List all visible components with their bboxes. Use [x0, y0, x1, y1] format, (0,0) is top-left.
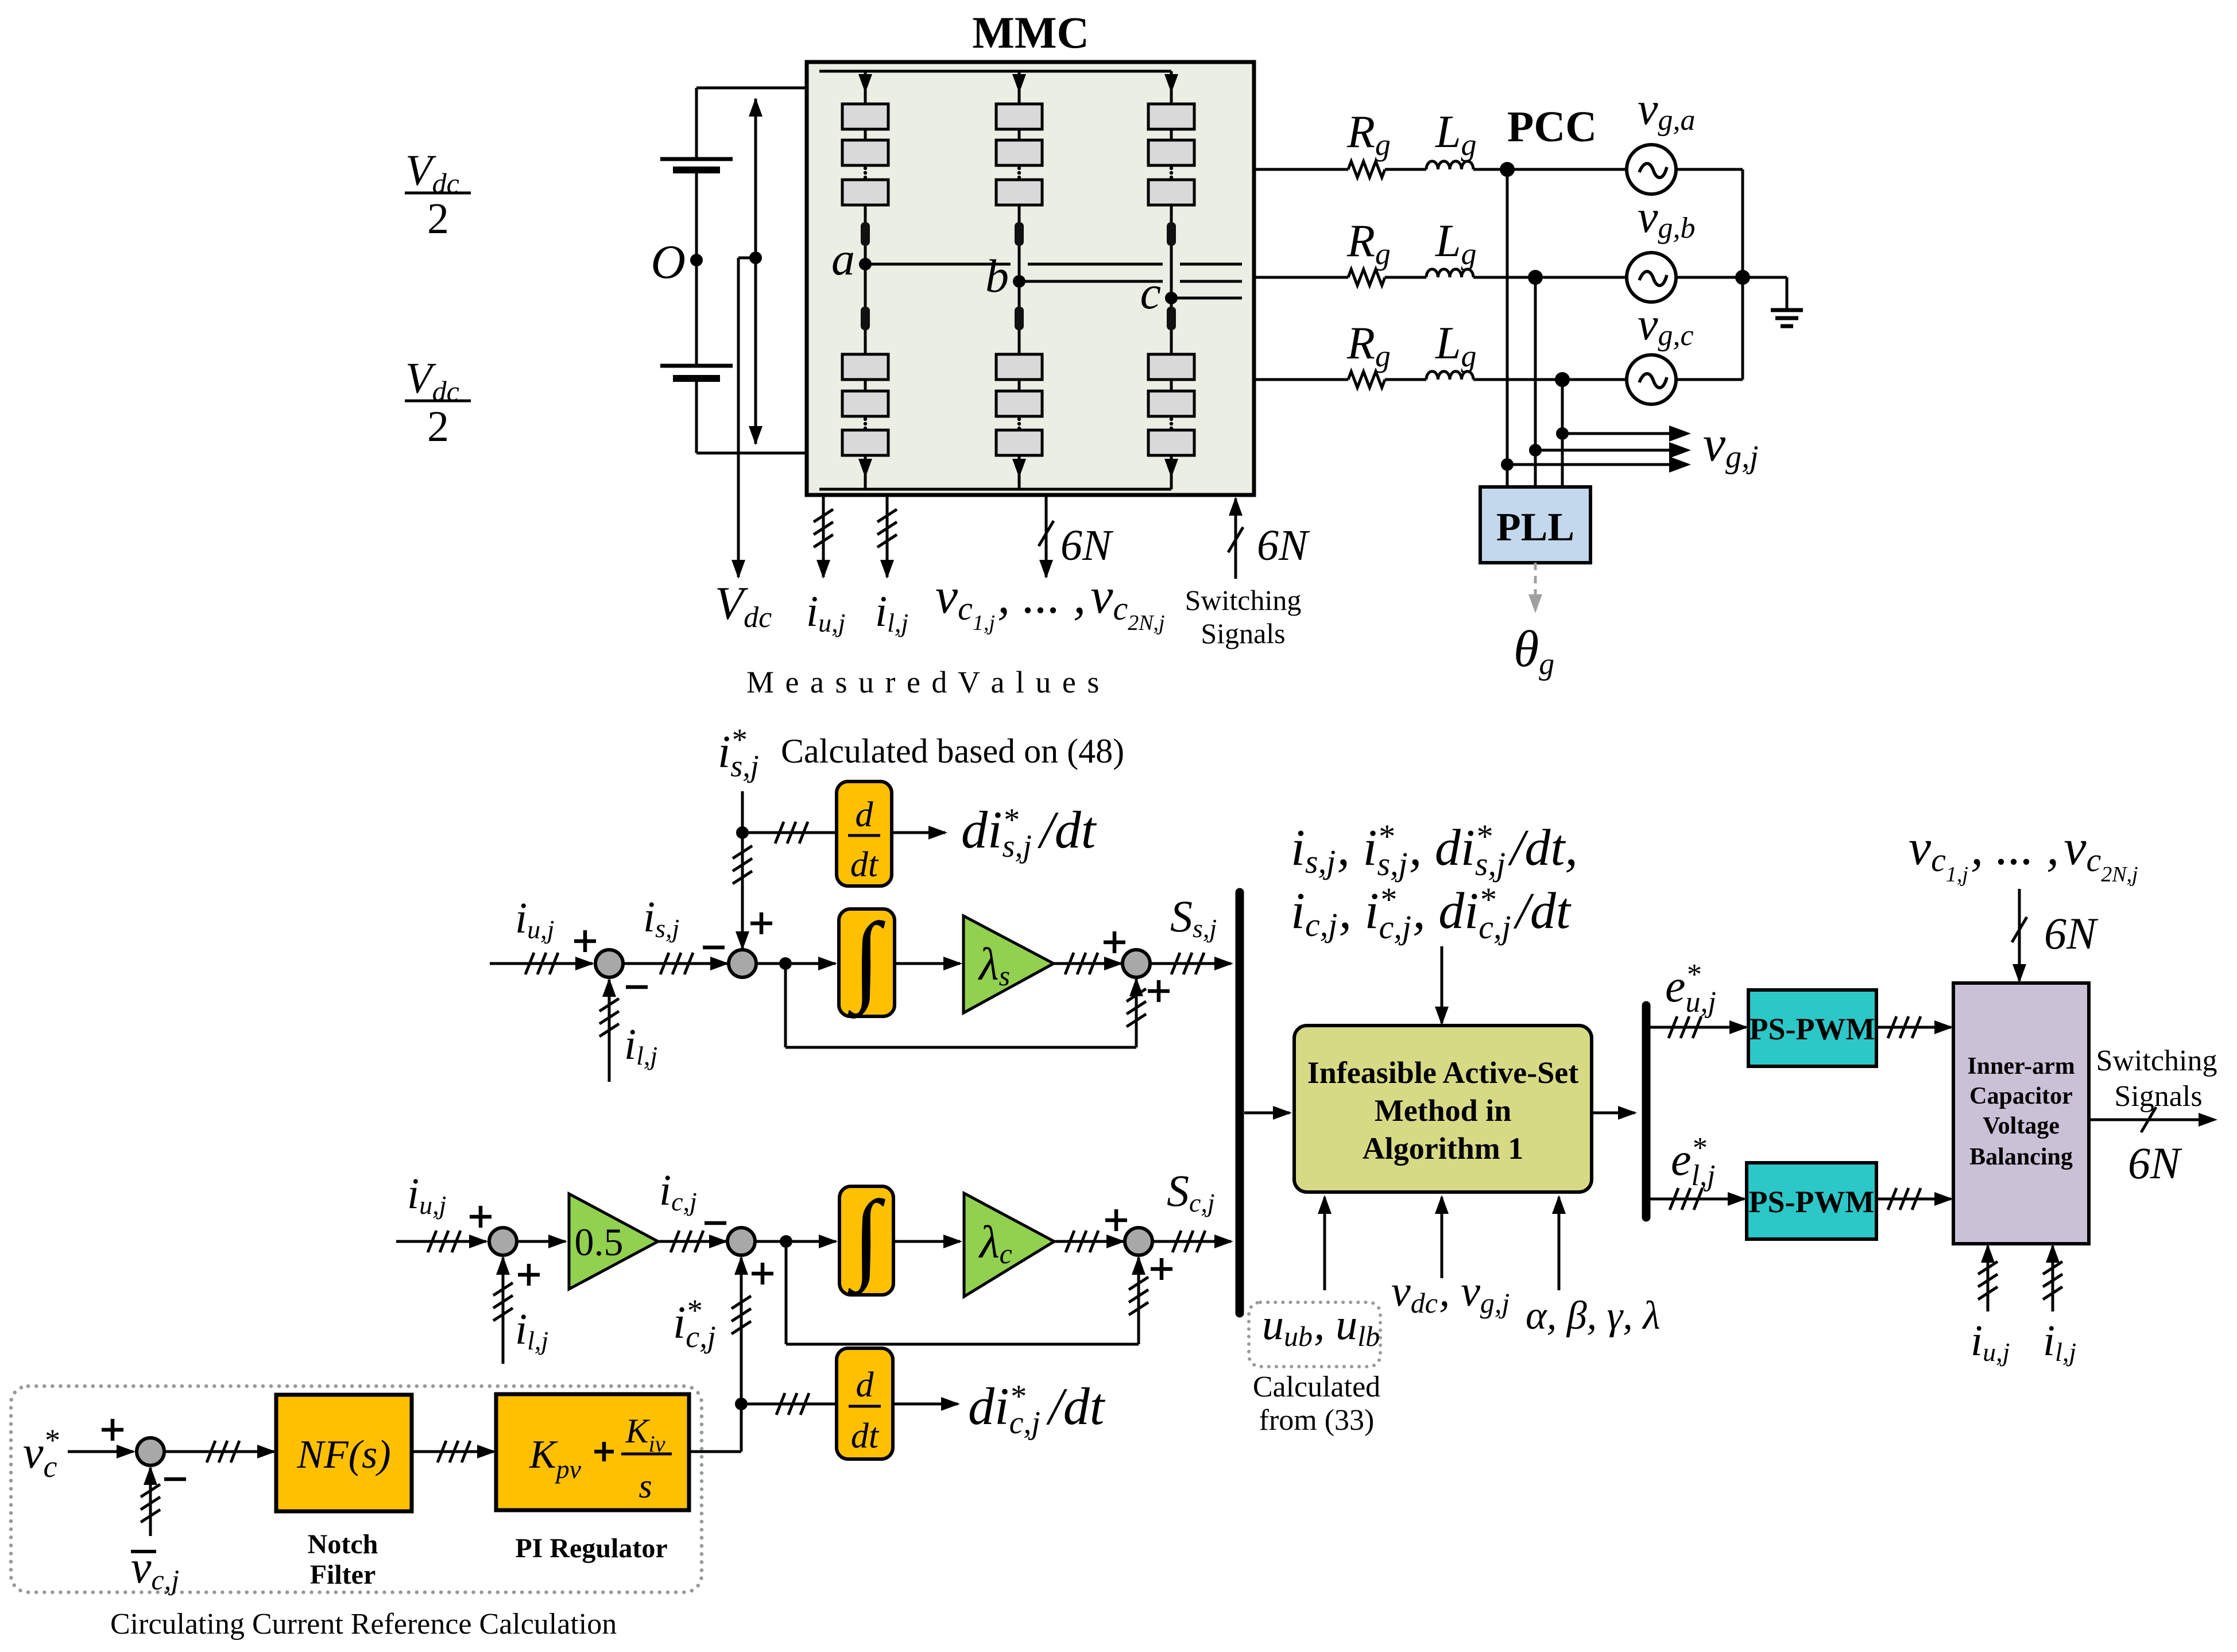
label vbar_c,j [131, 1542, 179, 1596]
bus bar signals row1/row2 [1236, 892, 1244, 1313]
bus bar e outputs [1642, 1005, 1651, 1217]
summing junction row1 A [574, 930, 648, 987]
svg-text:dt: dt [851, 1417, 880, 1456]
gain 0.5 [569, 1194, 658, 1289]
svg-text:from (33): from (33) [1259, 1404, 1375, 1437]
label S_s,j [1170, 891, 1217, 943]
wire node a to lower inductor [864, 264, 867, 307]
label circulating current reference calculation [110, 1608, 617, 1641]
inner-arm capacitor voltage balancing block [1953, 983, 2089, 1244]
inductor Lg phase c [1426, 372, 1473, 380]
svg-text:PI Regulator: PI Regulator [515, 1533, 667, 1564]
wire v*_c input [68, 1445, 136, 1458]
wire vbar_c,j input [141, 1466, 160, 1536]
svg-text:2: 2 [427, 403, 449, 451]
label measured values [746, 665, 1101, 699]
node phase c tap [1555, 372, 1570, 387]
label switching signals output [2096, 1044, 2217, 1188]
label theta_g [1514, 621, 1554, 681]
label i_u,j measured [806, 587, 845, 637]
wire node b to lower inductor [1018, 281, 1021, 307]
PS-PWM block upper [1748, 990, 1876, 1066]
wire MMC to grid phase a [1254, 168, 1348, 171]
wire tap phase b to PLL [1534, 277, 1537, 487]
MMC title [972, 7, 1089, 57]
label v_dc v_g,j [1391, 1267, 1510, 1319]
label e*_l,j [1671, 1132, 1715, 1192]
wire junction B to integrator row2 [754, 1235, 838, 1248]
svg-text:Switching: Switching [1185, 584, 1302, 616]
label i_l,j row2 [515, 1305, 548, 1355]
summing junction row1 B [703, 912, 772, 977]
wire source to neutral bus phase b [1676, 276, 1743, 279]
svg-text:Signals: Signals [1201, 617, 1285, 649]
wire measured i_l,j [877, 495, 897, 579]
wire inductor to node b [1018, 246, 1021, 281]
wire S_s,j to bus [1150, 953, 1233, 974]
wire PS-PWM lower to inner-arm [1876, 1188, 1953, 1210]
wire Rg to Lg phase a [1385, 168, 1426, 171]
battery Vdc/2 lower [660, 260, 733, 453]
dashed box circulating current reference calculation [11, 1386, 702, 1592]
wire e*_l,j to PS-PWM lower [1650, 1188, 1747, 1210]
MMC phase leg c upper arm [1148, 71, 1194, 222]
label v_c1,j ... v_c2N,j top [1909, 820, 2138, 887]
wire i_u,j into inner-arm [1978, 1244, 1998, 1311]
label i_s,j [643, 893, 679, 943]
svg-text:Signals: Signals [2114, 1080, 2202, 1113]
wire e*_u,j to PS-PWM upper [1650, 1016, 1748, 1038]
wire NF to PI [412, 1441, 496, 1463]
label Lg phase b [1435, 216, 1477, 271]
svg-text:Notch: Notch [308, 1529, 378, 1560]
svg-text:∫: ∫ [847, 902, 885, 1019]
resistor Rg phase b [1348, 269, 1385, 285]
label alpha beta gamma lambda [1526, 1294, 1661, 1338]
infeasible active-set method block [1294, 1026, 1592, 1192]
wire node c to lower inductor [1170, 298, 1173, 307]
label v_g,b [1638, 192, 1696, 245]
d/dt block row2 [837, 1348, 893, 1459]
svg-text:∫: ∫ [847, 1180, 885, 1297]
svg-text:Algorithm 1: Algorithm 1 [1363, 1131, 1523, 1166]
svg-text:Switching: Switching [2096, 1044, 2217, 1077]
svg-text:6N: 6N [1061, 521, 1114, 570]
svg-text:a: a [831, 233, 855, 285]
Vdc measurement arrow [749, 98, 763, 445]
PS-PWM block lower [1747, 1163, 1876, 1239]
svg-text:Voltage: Voltage [1983, 1113, 2060, 1139]
label v_g,a [1638, 84, 1696, 137]
label v_g,j [1703, 416, 1759, 475]
wire feedback row2 [786, 1241, 1148, 1344]
label e*_u,j [1665, 958, 1716, 1019]
AC source v_g,b [1627, 253, 1676, 302]
wire gain to junction C row2 [1054, 1231, 1125, 1252]
arm inductor upper leg b [1015, 222, 1024, 246]
wire Rg to Lg phase c [1385, 378, 1426, 381]
wire u_ub u_lb input [1318, 1195, 1332, 1290]
wire labels to infeasible block [1435, 946, 1449, 1026]
wire phase b output [1019, 280, 1242, 283]
wire gain to junction B row2 [658, 1231, 728, 1252]
svg-text:Capacitor: Capacitor [1969, 1083, 2073, 1109]
svg-text:d: d [856, 795, 874, 834]
label switching signals (MMC) [1185, 584, 1302, 649]
label i*_c,j [673, 1293, 716, 1354]
MMC phase leg b lower arm [996, 330, 1042, 489]
svg-text:Infeasible Active-Set: Infeasible Active-Set [1307, 1055, 1578, 1090]
integrator block row2 [839, 1180, 893, 1297]
arm inductor lower leg c [1167, 307, 1176, 330]
summing junction row1 C [1104, 931, 1170, 1002]
label calculated based on (48) [781, 732, 1124, 770]
dashed box u_ub u_lb [1249, 1301, 1380, 1367]
label Vdc/2 upper [405, 146, 471, 243]
wire junction A to gain row2 [516, 1235, 567, 1248]
wire PI output to i*_c,j node [689, 1450, 741, 1453]
wire S_c,j to bus [1152, 1231, 1233, 1252]
label i_c,j [659, 1166, 697, 1216]
wire capacitor voltages into inner-arm [2012, 889, 2099, 983]
d/dt block row1 [837, 781, 892, 886]
arm inductor upper leg a [861, 222, 870, 246]
svg-text:Calculated based on (48): Calculated based on (48) [781, 732, 1124, 770]
wire junction A to junction B row1 [622, 953, 729, 974]
label Lg phase c [1435, 318, 1477, 373]
arm inductor lower leg b [1015, 307, 1024, 330]
wire phase c output [1171, 297, 1242, 300]
resistor Rg phase c [1348, 372, 1385, 388]
arm inductor lower leg a [861, 307, 870, 330]
label i_l,j row1 [624, 1020, 657, 1070]
label v*_c [23, 1423, 59, 1484]
PI regulator block [496, 1394, 689, 1510]
wire switching signals output [2089, 1107, 2217, 1132]
wire Lg to source phase a [1473, 168, 1627, 171]
svg-text:Inner-arm: Inner-arm [1967, 1053, 2075, 1080]
ground [1743, 277, 1803, 326]
wire d/dt output row1 [892, 826, 947, 839]
wire Vdc measured output [732, 258, 756, 579]
wire i_l,j input row1 [599, 978, 619, 1082]
label Rg phase c [1346, 318, 1391, 373]
inductor Lg phase a [1426, 161, 1473, 169]
node PCC [1500, 162, 1515, 177]
summing junction row2 B [705, 1223, 773, 1285]
label Rg phase a [1346, 107, 1391, 162]
wire measured capacitor voltages [1039, 495, 1114, 579]
svg-text:O: O [651, 235, 686, 289]
MMC phase leg c lower arm [1148, 330, 1194, 489]
wire PS-PWM upper to inner-arm [1876, 1016, 1953, 1038]
wire feedback row1 [785, 964, 1146, 1047]
wire neutral bus [1735, 169, 1750, 380]
wire gain to junction C row1 [1054, 953, 1123, 974]
svg-text:6N: 6N [2128, 1138, 2182, 1188]
label S_c,j [1167, 1166, 1215, 1217]
wire i*_c,j into junction B [732, 1256, 751, 1452]
svg-text:6N: 6N [2044, 908, 2099, 958]
wire v_dc v_g,j input [1435, 1195, 1449, 1278]
node c [1140, 266, 1178, 319]
node b [985, 250, 1025, 302]
NF(s) block [276, 1395, 412, 1511]
gain lambda_s [963, 916, 1054, 1013]
wire tap phase a to PLL [1506, 169, 1509, 487]
label capacitor voltages [935, 568, 1165, 635]
inductor Lg phase b [1426, 269, 1473, 277]
svg-text:PLL: PLL [1496, 505, 1574, 550]
wire DC bus bottom [696, 452, 807, 455]
wire Lg to source phase b [1473, 276, 1627, 279]
MMC top DC bus wire [819, 70, 1171, 73]
wire integrator to gain row2 [893, 1235, 962, 1248]
integrator block row1 [839, 902, 895, 1019]
wire inductor to node c [1170, 246, 1173, 298]
svg-text:α, β, γ, λ: α, β, γ, λ [1526, 1294, 1661, 1338]
battery Vdc/2 upper [660, 88, 733, 260]
node O [651, 235, 703, 289]
wire infeasible block output [1592, 1106, 1637, 1120]
wire PLL output theta_g (dashed) [1528, 563, 1542, 613]
label Vdc measured [715, 577, 772, 634]
arm inductor upper leg c [1167, 222, 1176, 246]
svg-text:Calculated: Calculated [1253, 1371, 1380, 1403]
label PI regulator [515, 1533, 667, 1564]
wire MMC to grid phase b [1254, 276, 1348, 279]
MMC phase leg a upper arm [842, 71, 888, 222]
label Rg phase b [1346, 216, 1391, 271]
AC source v_g,a [1627, 145, 1676, 194]
wire bus to infeasible block [1244, 1106, 1292, 1120]
wire Rg to Lg phase b [1385, 276, 1426, 279]
svg-text:v*c: v*c [23, 1423, 59, 1484]
wire junction to NF(s) [164, 1441, 276, 1463]
label i_u,j row2 [407, 1170, 446, 1220]
wire i*_s,j reference input [733, 791, 752, 950]
label di*_c,j/dt [968, 1377, 1106, 1441]
MMC bottom DC bus wire [819, 488, 1171, 491]
svg-text:PS-PWM: PS-PWM [1749, 1185, 1875, 1219]
wire switching signals input [1228, 497, 1310, 579]
wire phase a output [865, 263, 1242, 266]
svg-text:2: 2 [427, 195, 449, 243]
wire Lg to source phase c [1473, 378, 1627, 381]
svg-text:M e a s u r e d V a l u e s: M e a s u r e d V a l u e s [746, 665, 1101, 699]
label i_l,j inner-arm [2043, 1317, 2076, 1367]
label Lg phase a [1435, 107, 1477, 162]
label calculated from (33) [1253, 1371, 1380, 1437]
wire v_g,j measurement arrows [1501, 425, 1691, 473]
summing junction row2 C [1105, 1209, 1172, 1280]
label i_u,j row1 [515, 894, 554, 944]
svg-text:dt: dt [850, 845, 879, 884]
label di*_s,j/dt [961, 800, 1097, 864]
wire source to neutral bus phase a [1676, 168, 1743, 171]
PLL block [1480, 487, 1590, 563]
MMC converter box [807, 62, 1254, 495]
svg-text:MMC: MMC [972, 7, 1089, 57]
summing junction row2 A [470, 1206, 540, 1286]
gain lambda_c [964, 1193, 1054, 1297]
svg-text:Balancing: Balancing [1969, 1144, 2073, 1170]
MMC phase leg b upper arm [996, 71, 1042, 222]
svg-text:c: c [1140, 266, 1161, 319]
label i*_s,j [718, 722, 759, 783]
resistor Rg phase a [1348, 161, 1385, 177]
wire i_l,j into inner-arm [2043, 1244, 2062, 1311]
svg-text:0.5: 0.5 [575, 1220, 624, 1264]
svg-text:NF(s): NF(s) [296, 1433, 390, 1477]
wire tap phase c to PLL [1561, 380, 1564, 487]
wire i_l,j input row2 [493, 1256, 513, 1364]
node phase b tap [1528, 270, 1543, 285]
wire source to neutral bus phase c [1676, 378, 1743, 381]
svg-text:Circulating Current Reference: Circulating Current Reference Calculatio… [110, 1608, 617, 1641]
wire branch to d/dt row2 [741, 1393, 837, 1415]
label i_l,j measured [875, 587, 908, 637]
wire measured i_u,j [814, 495, 833, 579]
label inputs i_s,j i*_s,j di*_s,j/dt [1291, 818, 1578, 946]
svg-text:d: d [856, 1365, 874, 1405]
svg-text:Method in: Method in [1375, 1093, 1512, 1128]
label notch filter [308, 1529, 378, 1590]
label Vdc/2 lower [405, 354, 471, 451]
svg-text:PS-PWM: PS-PWM [1750, 1012, 1875, 1046]
wire MMC to grid phase c [1254, 378, 1348, 381]
svg-text:b: b [985, 250, 1009, 302]
wire integrator to gain row1 [895, 957, 962, 970]
wire input i_u,j row2 [396, 1231, 488, 1252]
wire DC bus top [696, 87, 807, 90]
wire alpha beta gamma lambda input [1552, 1195, 1566, 1290]
summing junction row3 [102, 1419, 186, 1479]
label PCC [1507, 103, 1597, 151]
wire junction B to integrator row1 [756, 957, 837, 970]
label i_u,j inner-arm [1971, 1317, 2010, 1367]
MMC phase leg a lower arm [842, 330, 888, 489]
wire branch to d/dt (row1) [742, 822, 837, 844]
svg-text:s: s [638, 1467, 652, 1505]
wire input i_u,j row1 [490, 953, 594, 974]
wire d/dt output row2 [893, 1397, 960, 1411]
wire inductor to node a [864, 246, 867, 264]
svg-text:PCC: PCC [1507, 103, 1597, 151]
AC source v_g,c [1627, 355, 1676, 404]
svg-text:6N: 6N [1257, 521, 1310, 570]
label v_g,c [1638, 299, 1694, 352]
svg-text:Filter: Filter [310, 1560, 376, 1590]
node a [831, 233, 872, 285]
